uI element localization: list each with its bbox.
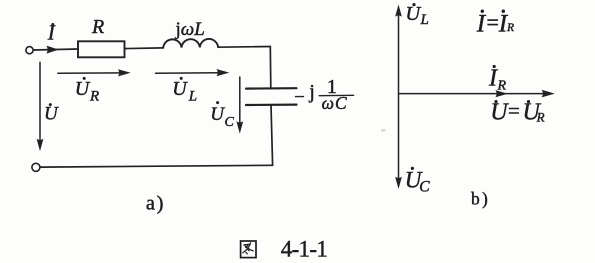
- svg-text:=: =: [508, 99, 520, 123]
- svg-text:U: U: [210, 104, 225, 125]
- svg-text:U: U: [75, 78, 91, 100]
- svg-text:L: L: [420, 12, 429, 28]
- svg-text:=: =: [487, 10, 499, 35]
- svg-text:j: j: [308, 82, 314, 103]
- svg-text:R: R: [91, 16, 104, 38]
- svg-text:jωL: jωL: [175, 19, 205, 40]
- svg-text:a): a): [146, 193, 165, 215]
- svg-text:I: I: [488, 65, 498, 91]
- svg-text:U: U: [44, 104, 59, 125]
- svg-text:R: R: [89, 89, 99, 105]
- svg-text:C: C: [419, 178, 430, 195]
- svg-text:U: U: [405, 3, 421, 25]
- svg-text:U: U: [490, 100, 509, 126]
- svg-text:C: C: [225, 115, 235, 130]
- svg-text:R: R: [497, 79, 507, 94]
- svg-text:–: –: [294, 86, 304, 105]
- svg-text:ωC: ωC: [322, 93, 348, 113]
- svg-text:R: R: [506, 22, 514, 34]
- svg-text:I: I: [476, 11, 487, 38]
- svg-text:L: L: [188, 89, 197, 105]
- svg-text:R: R: [536, 110, 545, 125]
- svg-text:I: I: [47, 21, 56, 45]
- svg-text:U: U: [172, 78, 188, 100]
- svg-text:4-1-1: 4-1-1: [281, 237, 328, 262]
- svg-text:b): b): [471, 189, 490, 209]
